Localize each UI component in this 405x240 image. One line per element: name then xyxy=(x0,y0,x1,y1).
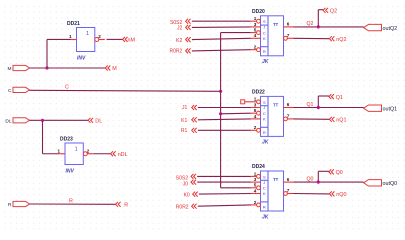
svg-text:C: C xyxy=(65,85,69,91)
svg-text:J: J xyxy=(263,25,265,30)
svg-text:J: J xyxy=(263,180,265,185)
svg-text:INV: INV xyxy=(66,169,75,175)
svg-text:TT: TT xyxy=(273,102,279,107)
svg-text:5: 5 xyxy=(254,183,257,188)
svg-text:DD20: DD20 xyxy=(252,9,265,15)
svg-text:R: R xyxy=(124,203,128,209)
svg-text:C: C xyxy=(8,88,12,94)
svg-text:R1: R1 xyxy=(181,128,188,134)
svg-text:nQ0: nQ0 xyxy=(336,192,346,198)
svg-text:Q1: Q1 xyxy=(336,95,343,101)
svg-text:K: K xyxy=(263,117,266,122)
svg-text:5: 5 xyxy=(254,28,257,33)
svg-text:Q1: Q1 xyxy=(307,102,314,108)
svg-text:1: 1 xyxy=(75,147,78,153)
svg-text:DD21: DD21 xyxy=(67,21,80,27)
svg-text:nQ2: nQ2 xyxy=(336,37,346,43)
svg-text:outQ2: outQ2 xyxy=(383,26,398,32)
svg-text:6: 6 xyxy=(287,22,290,27)
svg-text:J2: J2 xyxy=(177,26,183,32)
svg-text:6: 6 xyxy=(287,177,290,182)
svg-text:K: K xyxy=(263,36,266,41)
svg-text:C: C xyxy=(263,30,266,35)
svg-text:2: 2 xyxy=(254,125,257,130)
svg-text:S0S2: S0S2 xyxy=(176,175,188,181)
svg-text:C: C xyxy=(263,186,266,191)
svg-text:J: J xyxy=(263,105,265,110)
svg-text:R: R xyxy=(263,204,266,209)
svg-text:nQ1: nQ1 xyxy=(336,118,346,124)
svg-text:R: R xyxy=(263,49,266,54)
svg-text:3: 3 xyxy=(254,177,257,182)
svg-text:1: 1 xyxy=(254,97,257,102)
svg-text:R0R2: R0R2 xyxy=(170,48,183,54)
svg-text:Q2: Q2 xyxy=(330,9,337,15)
svg-text:JK: JK xyxy=(262,140,269,146)
svg-text:DD24: DD24 xyxy=(252,164,265,170)
svg-text:1: 1 xyxy=(86,31,89,37)
svg-text:3: 3 xyxy=(254,102,257,107)
svg-text:2: 2 xyxy=(87,148,90,153)
svg-text:1: 1 xyxy=(69,34,72,39)
svg-text:2: 2 xyxy=(254,45,257,50)
svg-text:2: 2 xyxy=(98,34,101,39)
svg-text:Q0: Q0 xyxy=(336,170,343,176)
svg-text:K2: K2 xyxy=(176,38,182,44)
svg-text:Q0: Q0 xyxy=(307,176,314,182)
svg-text:7: 7 xyxy=(287,113,290,118)
svg-text:R: R xyxy=(263,130,266,135)
svg-text:JK: JK xyxy=(262,59,269,65)
svg-text:K: K xyxy=(263,191,266,196)
svg-text:DD22: DD22 xyxy=(252,90,265,96)
svg-text:S: S xyxy=(263,19,266,24)
svg-text:outQ1: outQ1 xyxy=(383,106,398,112)
svg-text:DL: DL xyxy=(5,118,11,124)
svg-text:1: 1 xyxy=(254,16,257,21)
svg-text:K1: K1 xyxy=(181,118,187,124)
svg-text:nDL: nDL xyxy=(118,152,128,158)
svg-text:DL: DL xyxy=(95,119,102,125)
svg-text:J0: J0 xyxy=(183,181,189,187)
svg-text:INV: INV xyxy=(77,56,86,62)
svg-text:outQ0: outQ0 xyxy=(383,181,398,187)
svg-text:K0: K0 xyxy=(184,192,190,198)
svg-text:5: 5 xyxy=(254,108,257,113)
svg-text:S: S xyxy=(263,100,266,105)
svg-text:nM: nM xyxy=(128,38,136,44)
svg-text:2: 2 xyxy=(254,200,257,205)
svg-text:JK: JK xyxy=(262,214,269,220)
svg-text:1: 1 xyxy=(57,148,60,153)
svg-text:R0R2: R0R2 xyxy=(176,204,189,210)
svg-text:DD23: DD23 xyxy=(60,136,73,142)
svg-text:6: 6 xyxy=(287,102,290,107)
svg-text:TT: TT xyxy=(273,177,279,182)
svg-text:R: R xyxy=(8,202,12,208)
svg-text:J1: J1 xyxy=(182,105,188,111)
svg-text:S: S xyxy=(263,174,266,179)
svg-text:1: 1 xyxy=(254,171,257,176)
svg-text:7: 7 xyxy=(287,188,290,193)
svg-text:TT: TT xyxy=(273,22,279,27)
svg-text:4: 4 xyxy=(254,114,257,119)
svg-text:Q2: Q2 xyxy=(307,21,314,27)
svg-text:4: 4 xyxy=(254,188,257,193)
svg-text:M: M xyxy=(8,66,12,72)
svg-text:M: M xyxy=(112,66,117,72)
svg-text:C: C xyxy=(263,111,266,116)
svg-text:4: 4 xyxy=(254,33,257,38)
svg-text:R: R xyxy=(69,199,73,205)
svg-text:3: 3 xyxy=(254,22,257,27)
svg-text:7: 7 xyxy=(287,33,290,38)
